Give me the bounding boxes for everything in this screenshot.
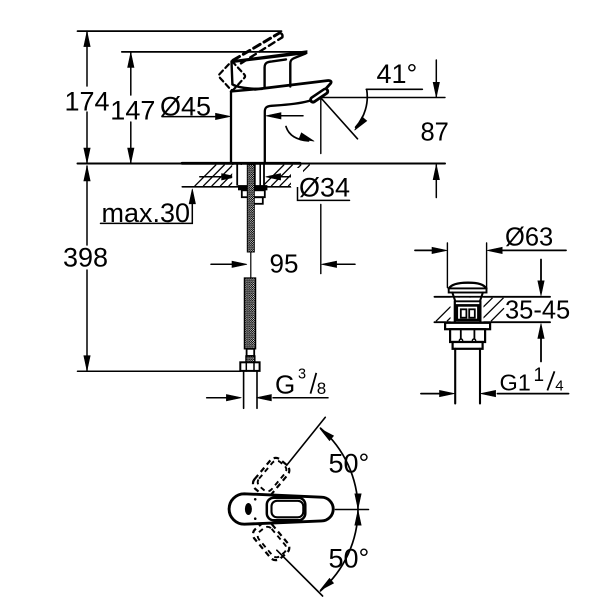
svg-text:Ø63: Ø63 (505, 223, 553, 251)
svg-text:50°: 50° (329, 543, 370, 573)
svg-text:Ø34: Ø34 (299, 172, 350, 202)
svg-text:max.30: max.30 (102, 198, 191, 228)
svg-text:398: 398 (63, 242, 108, 272)
svg-text:3: 3 (298, 367, 306, 383)
svg-text:50°: 50° (329, 448, 370, 478)
svg-text:1: 1 (534, 365, 545, 386)
svg-text:95: 95 (270, 248, 299, 278)
svg-text:8: 8 (317, 379, 326, 398)
svg-text:174: 174 (65, 86, 110, 116)
svg-text:87: 87 (421, 118, 449, 146)
svg-text:G: G (275, 369, 295, 399)
svg-text:G1: G1 (500, 369, 531, 395)
svg-text:41°: 41° (377, 59, 418, 89)
svg-text:147: 147 (110, 95, 155, 125)
svg-text:4: 4 (555, 378, 563, 395)
svg-text:Ø45: Ø45 (160, 92, 211, 122)
svg-text:35-45: 35-45 (505, 297, 570, 325)
